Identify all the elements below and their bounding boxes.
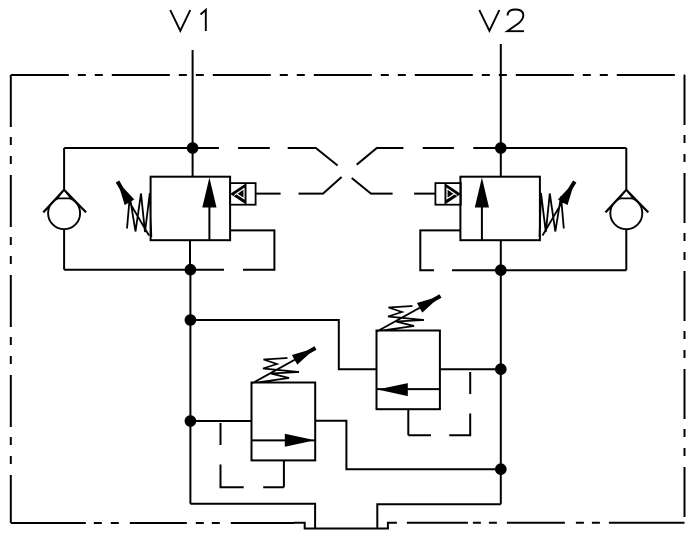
counterbalance valve 1 spring <box>127 193 151 237</box>
wire: left main vertical <box>189 270 191 504</box>
counterbalance valve 2 adjust arrow <box>543 182 575 236</box>
wire: bottom manifold outline left <box>190 504 315 529</box>
counterbalance valve 2 pilot head <box>435 183 461 205</box>
counterbalance valve 2 spring <box>540 193 564 237</box>
wire: bottom manifold outline right <box>377 504 501 528</box>
counterbalance valve 2 flow arrow <box>475 178 489 241</box>
check valve CV2 <box>606 148 649 270</box>
counterbalance valve 1 adjust arrow <box>118 182 150 236</box>
wire: left check valve bottom to lower junction <box>64 269 224 271</box>
relief valve RV2 body <box>377 331 440 410</box>
counterbalance valve 2 lower-left loop wire <box>420 230 460 270</box>
relief valve RV1 adjust arrow <box>251 348 316 384</box>
wire: RV1 outlet to junction D <box>315 421 501 470</box>
label V2 <box>479 10 524 32</box>
counterbalance valve 1 lower-right loop wire <box>230 230 274 269</box>
wire: V1 stem <box>192 50 194 177</box>
node: left lower junction <box>186 265 196 275</box>
wire: RV2 outlet to junction C <box>440 368 501 370</box>
wire: junction A to relief valve 2 inlet <box>190 320 376 369</box>
relief valve RV1 flow arrow <box>285 434 315 447</box>
wire: right main vertical <box>500 270 502 504</box>
wire: right check valve bottom to lower junction <box>452 269 626 271</box>
relief valve RV2 flow arrow <box>377 383 407 396</box>
wire: junction B to RV1 inlet <box>190 420 251 422</box>
node: right vertical junction D <box>496 464 506 474</box>
node: left vertical junction A <box>186 315 196 325</box>
wire: RV2 bottom port <box>407 409 409 435</box>
wire: V2 stem <box>500 44 502 177</box>
node: V2 junction <box>496 143 506 153</box>
node: V1 junction <box>188 143 198 153</box>
pilot line: V1 top to CB valve 2 (dashed, crossing) <box>193 148 436 194</box>
bottom port boss notch <box>294 523 397 529</box>
wire: RV1 bottom port <box>283 460 285 487</box>
relief valve RV1 body <box>252 383 316 461</box>
wire: V1 junction to left check valve (top) <box>64 147 193 149</box>
node: right lower junction <box>496 265 506 275</box>
wire: RV1 drain (dashed) <box>221 423 284 487</box>
wire: RV2 drain (dashed) <box>408 372 470 435</box>
counterbalance valve 2 body <box>460 177 540 271</box>
counterbalance valve 1 flow arrow <box>202 178 216 241</box>
check valve CV1 <box>43 148 86 270</box>
relief valve RV2 spring <box>382 306 424 331</box>
node: right vertical junction C <box>496 364 506 374</box>
counterbalance valve 1 body <box>151 177 231 270</box>
counterbalance valve 1 pilot head <box>230 183 256 205</box>
node: left vertical junction B <box>186 416 196 426</box>
wire: V2 junction to right check valve (top) <box>501 147 627 149</box>
pilot line: CB valve 1 to V2 top (dashed, crossing) <box>256 148 496 194</box>
label V1 <box>170 10 206 31</box>
relief valve RV2 adjust arrow <box>376 296 441 332</box>
relief valve RV1 spring <box>257 358 299 383</box>
